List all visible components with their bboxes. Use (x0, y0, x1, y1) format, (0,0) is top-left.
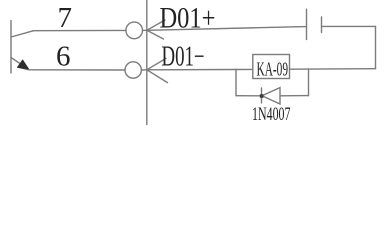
diode VD1 triangle (262, 88, 280, 104)
node fan-out at D01+ junction (147, 20, 165, 30)
wire pin6 horizontal to terminal circle (28, 69, 125, 71)
wire right side vertical drop (375, 26, 377, 68)
svg-text:D01−: D01− (162, 42, 205, 73)
diode branch bottom wire right segment (280, 95, 309, 97)
wire pin6 flare diagonal (11, 58, 26, 68)
terminal circle bottom (D01-) (125, 62, 141, 78)
svg-text:D01+: D01+ (160, 1, 216, 34)
diode branch left vertical wire (235, 70, 237, 96)
wire pin7 flare diagonal (11, 31, 34, 37)
svg-text:KA-09: KA-09 (257, 58, 289, 80)
wire circle-to-bus bottom (141, 69, 146, 71)
wire pin7 horizontal to terminal circle (33, 29, 126, 31)
diode branch right vertical wire (308, 69, 310, 96)
wire D01+ net to battery (147, 27, 307, 31)
battery GB short plate (321, 17, 323, 33)
diode VD1 cathode bar (261, 88, 263, 103)
arrowhead on pin6 wire (17, 60, 29, 70)
wire circle-to-bus top (143, 29, 147, 31)
svg-text:7: 7 (58, 2, 73, 34)
wire node to relay coil box (236, 68, 253, 70)
connector terminal bar X1 (left vertical) (10, 21, 12, 73)
bus vertical line (146, 0, 148, 125)
diode junction blob (260, 94, 264, 98)
terminal circle top (D01+) (126, 22, 143, 39)
svg-text:6: 6 (56, 40, 71, 72)
wire battery to right corner (322, 25, 376, 27)
wire relay box to right corner (290, 68, 376, 71)
battery GB long plate (306, 9, 308, 39)
node fan-out at D01- junction (147, 58, 166, 69)
relay coil box KA-09 (253, 55, 290, 79)
diode branch bottom wire left segment (236, 95, 262, 97)
wire D01- net to relay branch node (147, 69, 236, 71)
svg-text:1N4007: 1N4007 (252, 104, 291, 125)
